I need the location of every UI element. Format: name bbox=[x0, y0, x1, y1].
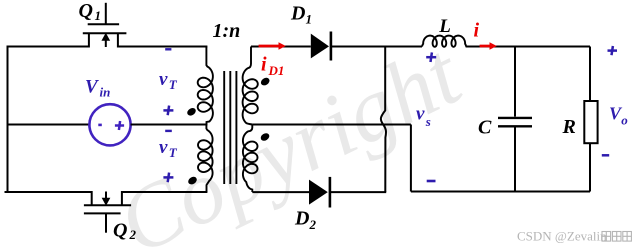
svg-text:CSDN @Zevalin: CSDN @Zevalin bbox=[517, 229, 607, 244]
resistor R bbox=[584, 101, 597, 143]
wire top rail right of Q1 bbox=[118, 46, 207, 48]
wire middle rail left bbox=[8, 124, 90, 126]
current arrow iD1 bbox=[259, 42, 286, 50]
svg-text:T: T bbox=[169, 77, 178, 92]
watermark Copyright bbox=[103, 24, 476, 248]
node A vertical wire with crossover bbox=[381, 47, 386, 193]
svg-text:Q: Q bbox=[113, 219, 127, 241]
label Q1 bbox=[79, 0, 102, 23]
polarity dot primary top bbox=[186, 106, 197, 117]
polarity dot secondary top bbox=[259, 76, 270, 87]
label vs bbox=[416, 104, 431, 130]
svg-text:D1: D1 bbox=[268, 63, 285, 78]
inductor L bbox=[422, 36, 466, 47]
svg-text:Q: Q bbox=[79, 0, 93, 22]
transistor Q2 bbox=[84, 191, 131, 233]
wire left vertical bbox=[7, 47, 9, 193]
label vT top bbox=[159, 69, 178, 92]
svg-text:i: i bbox=[474, 20, 480, 42]
svg-text:T: T bbox=[169, 145, 178, 160]
transistor Q1 right lead bbox=[117, 33, 119, 47]
wire D2 to node A bbox=[330, 191, 386, 193]
svg-text:v: v bbox=[416, 104, 425, 125]
polarity dot primary bottom bbox=[187, 175, 198, 186]
svg-text:2: 2 bbox=[129, 227, 137, 242]
svg-text:s: s bbox=[425, 114, 431, 129]
svg-text:L: L bbox=[438, 16, 451, 37]
plus top winding bbox=[163, 106, 173, 116]
wire bottom rail left bbox=[5, 191, 92, 193]
capacitor C plates bbox=[498, 118, 532, 126]
plus bottom winding bbox=[163, 173, 173, 183]
wire secondary top rail bbox=[251, 46, 311, 48]
wire center tap down leg bbox=[410, 125, 412, 192]
svg-text:D: D bbox=[294, 207, 309, 229]
svg-text:1: 1 bbox=[306, 12, 313, 27]
wire right vertical bottom bbox=[589, 143, 591, 191]
transformer core bbox=[224, 71, 236, 184]
wire secondary bottom rail bbox=[252, 191, 309, 193]
label Q2 bbox=[113, 219, 137, 242]
transistor Q1 bbox=[83, 3, 127, 48]
wire middle rail right bbox=[131, 124, 208, 126]
Vin minus bbox=[98, 124, 102, 127]
polarity dot secondary bottom bbox=[259, 132, 270, 143]
svg-text:D: D bbox=[290, 2, 305, 24]
Vin plus bbox=[115, 121, 124, 130]
label vT bottom bbox=[159, 137, 178, 160]
svg-text:R: R bbox=[562, 116, 576, 138]
plus vs bbox=[426, 52, 436, 62]
minus top winding bbox=[165, 48, 171, 50]
label Vo bbox=[609, 104, 628, 128]
transformer primary winding 2 bbox=[198, 125, 213, 193]
label Vin bbox=[85, 77, 110, 100]
source Vin circle bbox=[89, 104, 130, 145]
svg-text:1:n: 1:n bbox=[213, 20, 241, 42]
transformer secondary winding 1 bbox=[243, 47, 258, 125]
wire bottom rail right of Q2 bbox=[122, 191, 207, 193]
watermark CJK glyph boxes bbox=[602, 232, 631, 242]
svg-text:2: 2 bbox=[309, 217, 317, 232]
svg-text:1: 1 bbox=[95, 8, 102, 23]
label iD1 bbox=[261, 53, 284, 78]
wire D1 to L bbox=[331, 46, 422, 48]
svg-text:v: v bbox=[159, 137, 168, 158]
diode D2 bbox=[309, 177, 330, 208]
wire center tap rail bbox=[252, 124, 411, 126]
transformer secondary winding 2 bbox=[243, 125, 258, 193]
minus bottom winding bbox=[165, 130, 172, 132]
svg-text:C: C bbox=[478, 117, 492, 139]
svg-text:in: in bbox=[100, 85, 111, 100]
capacitor C bottom wire bbox=[514, 128, 516, 192]
wire L to corner bbox=[466, 46, 590, 48]
svg-text:V: V bbox=[85, 77, 99, 98]
svg-text:v: v bbox=[159, 69, 168, 90]
svg-text:o: o bbox=[621, 113, 628, 128]
transformer primary winding 1 bbox=[198, 47, 213, 125]
capacitor C branch top wire bbox=[514, 47, 516, 117]
plus Vo bbox=[608, 46, 618, 55]
minus Vo bbox=[602, 154, 609, 157]
label D2 bbox=[294, 207, 317, 232]
wire output bottom rail bbox=[411, 191, 590, 193]
minus vs bbox=[427, 180, 436, 183]
label D1 bbox=[290, 2, 312, 26]
wire right vertical top bbox=[589, 47, 591, 102]
svg-text:i: i bbox=[261, 53, 267, 75]
current arrow i bbox=[480, 42, 497, 50]
diode D1 bbox=[311, 32, 331, 61]
wire top rail left bbox=[7, 46, 89, 48]
